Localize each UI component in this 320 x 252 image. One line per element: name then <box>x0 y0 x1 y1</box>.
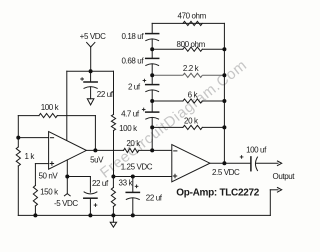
svg-text:0.18 uf: 0.18 uf <box>122 32 145 41</box>
svg-text:Op-Amp: TLC2272: Op-Amp: TLC2272 <box>176 187 259 198</box>
svg-text:2.2 k: 2.2 k <box>183 64 200 73</box>
svg-text:2 uf: 2 uf <box>128 83 141 92</box>
svg-text:33 k: 33 k <box>119 179 134 188</box>
svg-text:20 k: 20 k <box>126 139 141 148</box>
svg-text:150 k: 150 k <box>40 188 59 197</box>
svg-text:1 k: 1 k <box>25 152 36 161</box>
svg-text:0.68 uf: 0.68 uf <box>122 57 145 66</box>
svg-text:+5 VDC: +5 VDC <box>80 32 106 41</box>
svg-text:100 k: 100 k <box>119 124 138 133</box>
svg-text:22 uf: 22 uf <box>92 179 109 188</box>
svg-text:800 ohm: 800 ohm <box>177 40 206 49</box>
svg-text:2.5 VDC: 2.5 VDC <box>212 168 240 177</box>
svg-text:100 k: 100 k <box>41 103 60 112</box>
svg-text:6 k: 6 k <box>188 91 199 100</box>
svg-text:4.7 uf: 4.7 uf <box>121 110 140 119</box>
svg-text:20 k: 20 k <box>184 116 199 125</box>
svg-text:22 uf: 22 uf <box>97 90 114 99</box>
svg-text:5uV: 5uV <box>90 156 104 165</box>
svg-text:22 uf: 22 uf <box>146 193 163 202</box>
svg-text:-5 VDC: -5 VDC <box>54 199 78 208</box>
svg-text:Output: Output <box>273 172 296 181</box>
svg-text:100 uf: 100 uf <box>246 146 267 155</box>
svg-text:470 ohm: 470 ohm <box>178 11 207 20</box>
svg-text:1.25 VDC: 1.25 VDC <box>121 163 153 172</box>
svg-text:50 nV: 50 nV <box>38 172 58 181</box>
